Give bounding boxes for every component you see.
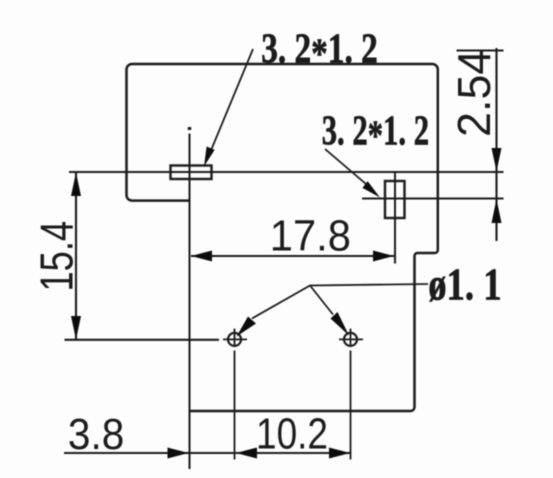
arrowhead 3.8 right xyxy=(168,448,189,459)
vertical slot 3.2x1.2 xyxy=(385,181,405,218)
dim 3.8 / 10.2 line xyxy=(64,452,351,454)
svg-text:ø1. 1: ø1. 1 xyxy=(428,260,501,311)
vertical slot centerline / extension for 17.8 xyxy=(394,173,396,264)
arrowhead 2.54 bottom (up) xyxy=(492,199,502,223)
arrowhead 15.4 top (up) xyxy=(71,173,81,197)
svg-text:3.8: 3.8 xyxy=(68,409,124,458)
dim 15.4 line xyxy=(75,172,77,340)
dim 2.54 line xyxy=(495,48,497,241)
line B through vertical slot xyxy=(362,197,504,199)
svg-text:3. 2*1. 2: 3. 2*1. 2 xyxy=(322,107,429,159)
svg-text:17.8: 17.8 xyxy=(270,211,351,260)
dim 17.8 line xyxy=(191,255,394,257)
svg-text:2.54: 2.54 xyxy=(448,50,500,137)
leader label2 xyxy=(325,149,373,190)
leader label1 xyxy=(207,49,253,160)
flange line A through horizontal slot xyxy=(69,171,504,173)
arrowhead 17.8 right xyxy=(373,251,394,262)
hole 1 circle xyxy=(228,333,241,346)
arrowhead 2.54 top (down) xyxy=(492,148,502,172)
svg-text:3. 2*1. 2: 3. 2*1. 2 xyxy=(261,26,378,78)
arrowhead leader1 xyxy=(204,147,215,167)
dim 15.4 bottom extension xyxy=(65,339,220,341)
arrowhead hole2 xyxy=(331,312,350,336)
hole 2 circle xyxy=(344,333,357,346)
arrowhead 17.8 left xyxy=(191,251,212,262)
arrowhead 15.4 bottom (down) xyxy=(71,316,81,340)
part body outline xyxy=(127,64,438,411)
horizontal slot 3.2x1.2 xyxy=(171,166,212,180)
arrowhead 10.2 right xyxy=(329,448,350,459)
centerline / left edge of lower body xyxy=(188,127,191,130)
dim 2.54 top tick xyxy=(457,49,504,51)
svg-text:15.4: 15.4 xyxy=(31,221,82,292)
svg-text:10.2: 10.2 xyxy=(256,408,328,458)
hole leader xyxy=(252,284,428,319)
arrowhead 10.2 left xyxy=(236,448,257,459)
hole 1 cross xyxy=(223,338,247,340)
arrowhead hole1 xyxy=(237,317,257,337)
arrowhead leader2 xyxy=(362,181,380,197)
hole 2 cross xyxy=(339,338,363,340)
